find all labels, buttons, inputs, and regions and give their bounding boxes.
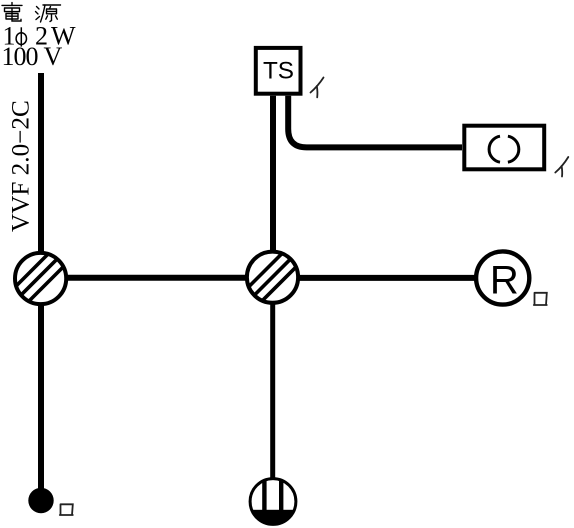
wire: J2 to receptacle R (horizontal)	[298, 275, 476, 281]
label イ (at load device)	[555, 157, 568, 177]
wire: J1 down to lamp ロ	[38, 303, 44, 492]
power source label 電源 (kanji drawn as strokes)	[2, 3, 61, 22]
junction box J1 (left, hatched circle)	[15, 253, 66, 304]
timer switch TS	[256, 48, 301, 94]
電	[2, 4, 22, 6]
lamp ロ (filled circle outlet)	[28, 488, 53, 513]
wire: TS to load イ (curved branch)	[288, 96, 462, 148]
label ロ (at lamp)	[60, 504, 73, 515]
junction box J2 (center, hatched circle)	[247, 252, 298, 303]
wire: J1 to J2 (horizontal)	[66, 275, 247, 281]
load device イ (rectangle with parentheses)	[464, 126, 544, 170]
phi symbol	[16, 27, 26, 46]
label ロ (at R)	[534, 293, 547, 305]
svg-text:VVF 2.0−2C: VVF 2.0−2C	[7, 100, 34, 232]
svg-text:TS: TS	[263, 58, 294, 85]
svg-text:100: 100	[2, 42, 39, 71]
svg-text:V: V	[44, 42, 63, 71]
receptacle R (circle with R)	[476, 251, 529, 304]
wire: TS to J2 (vertical)	[270, 96, 276, 252]
wire: source drop (top vertical)	[38, 73, 44, 254]
wire: J2 down to ceiling light	[270, 302, 275, 480]
源	[36, 7, 40, 20]
svg-text:R: R	[490, 258, 519, 302]
label イ (at TS)	[311, 78, 324, 98]
ceiling light (circle, two bars, filled bottom)	[249, 477, 297, 527]
